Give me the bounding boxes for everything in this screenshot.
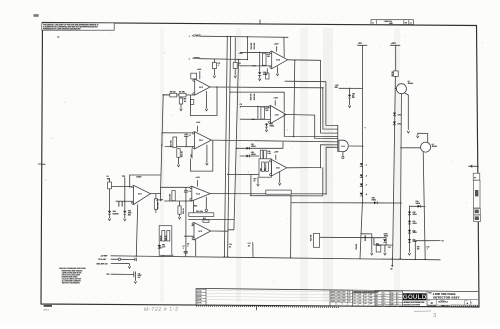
svg-text:.005: .005 bbox=[370, 294, 373, 296]
svg-text:R23: R23 bbox=[376, 244, 379, 246]
svg-text:TP9: TP9 bbox=[159, 247, 162, 249]
svg-text:TP8: TP8 bbox=[106, 274, 109, 276]
svg-text:SHEET 1 OF 1: SHEET 1 OF 1 bbox=[441, 306, 450, 308]
svg-text:P1: P1 bbox=[474, 177, 476, 179]
svg-text:R27: R27 bbox=[417, 247, 420, 249]
svg-text:QTY PL: QTY PL bbox=[197, 299, 202, 301]
svg-text:.015: .015 bbox=[364, 294, 367, 296]
svg-text:3: 3 bbox=[189, 36, 190, 38]
svg-text:TP10, REF: TP10, REF bbox=[98, 259, 107, 261]
svg-text:.005: .005 bbox=[370, 297, 373, 299]
svg-text:+5VDC: +5VDC bbox=[192, 57, 200, 60]
svg-text:2: 2 bbox=[189, 59, 190, 61]
svg-text:1N914: 1N914 bbox=[372, 199, 377, 202]
svg-text:.01: .01 bbox=[229, 246, 231, 248]
svg-text:1/4 W 5% TOLERANCE: 1/4 W 5% TOLERANCE bbox=[62, 282, 81, 285]
svg-text:.1: .1 bbox=[240, 106, 241, 108]
svg-text:P2: P2 bbox=[442, 241, 444, 243]
svg-text:DR: DR bbox=[376, 303, 378, 305]
svg-text:.015: .015 bbox=[364, 300, 367, 302]
svg-text:R14: R14 bbox=[253, 64, 256, 67]
svg-text:R22 300: R22 300 bbox=[310, 235, 312, 241]
svg-text:CR6: CR6 bbox=[413, 230, 416, 232]
svg-text:CR9: CR9 bbox=[416, 201, 419, 203]
svg-text:R19 1K: R19 1K bbox=[165, 235, 167, 241]
svg-text:CR12: CR12 bbox=[398, 124, 402, 126]
svg-text:REV A: REV A bbox=[43, 308, 49, 311]
svg-text:+12V: +12V bbox=[197, 69, 202, 71]
svg-text:DR: DR bbox=[376, 298, 378, 300]
svg-text:R2 2K: R2 2K bbox=[119, 201, 121, 206]
svg-text:DR: DR bbox=[376, 301, 378, 303]
svg-text:.030: .030 bbox=[359, 294, 362, 296]
svg-text:M-722 # 1-2: M-722 # 1-2 bbox=[144, 306, 179, 313]
svg-text:.015: .015 bbox=[364, 303, 367, 305]
svg-text:R26 1K: R26 1K bbox=[392, 70, 394, 76]
svg-text:C11: C11 bbox=[138, 273, 141, 275]
svg-text:J.Wms: J.Wms bbox=[381, 298, 386, 300]
svg-text:R6 10K: R6 10K bbox=[170, 92, 176, 94]
svg-text:R15 10K: R15 10K bbox=[254, 42, 256, 49]
svg-text:.030: .030 bbox=[359, 300, 362, 302]
svg-text:.01: .01 bbox=[248, 245, 250, 247]
svg-text:XX.X: XX.X bbox=[353, 297, 356, 299]
svg-text:.1: .1 bbox=[187, 246, 188, 248]
svg-text:CR7: CR7 bbox=[413, 239, 416, 241]
svg-text:R21: R21 bbox=[203, 218, 206, 220]
svg-text:.1: .1 bbox=[183, 248, 184, 250]
svg-text:TITLE: TITLE bbox=[428, 293, 431, 295]
svg-text:+5V REF: +5V REF bbox=[100, 256, 108, 258]
svg-text:C12: C12 bbox=[388, 247, 391, 249]
svg-text:R25 240: R25 240 bbox=[364, 235, 367, 241]
svg-text:R7 10K: R7 10K bbox=[179, 92, 185, 94]
svg-text:R18 10K: R18 10K bbox=[254, 93, 256, 100]
svg-text:J.Wms: J.Wms bbox=[381, 301, 386, 303]
svg-text:R14: R14 bbox=[194, 205, 197, 208]
svg-text:GOULD: GOULD bbox=[403, 294, 427, 301]
svg-text:R18 10K: R18 10K bbox=[251, 93, 253, 100]
svg-text:+12V: +12V bbox=[195, 177, 200, 179]
svg-text:CHK: CHK bbox=[391, 306, 394, 308]
svg-text:TP5: TP5 bbox=[122, 176, 125, 178]
svg-text:1N4742: 1N4742 bbox=[113, 212, 119, 215]
svg-text:XX.X: XX.X bbox=[353, 300, 356, 302]
svg-text:80-00723-1: 80-00723-1 bbox=[439, 302, 449, 304]
svg-text:DWG NO: DWG NO bbox=[440, 300, 445, 302]
svg-text:-4: -4 bbox=[365, 193, 367, 196]
svg-text:D: D bbox=[431, 301, 433, 305]
svg-text:4881: 4881 bbox=[389, 22, 393, 25]
svg-text:+12V: +12V bbox=[274, 151, 279, 153]
svg-text:1: 1 bbox=[471, 302, 472, 304]
svg-text:R10 2K: R10 2K bbox=[183, 207, 185, 213]
svg-text:DR: DR bbox=[376, 295, 378, 297]
svg-text:+5V: +5V bbox=[358, 43, 362, 45]
svg-text:.030: .030 bbox=[359, 297, 362, 299]
svg-text:CHK: CHK bbox=[391, 293, 394, 295]
svg-text:R13 10K: R13 10K bbox=[170, 193, 172, 201]
svg-text:+12V: +12V bbox=[391, 43, 397, 45]
svg-text:QTY PL: QTY PL bbox=[197, 297, 202, 299]
svg-text:QTY PL: QTY PL bbox=[197, 291, 202, 293]
svg-text:CR10: CR10 bbox=[384, 234, 388, 236]
svg-text:10: 10 bbox=[254, 180, 256, 182]
svg-text:QTY PL: QTY PL bbox=[197, 302, 202, 304]
svg-text:R20 10K: R20 10K bbox=[196, 211, 204, 213]
svg-text:REF: REF bbox=[335, 87, 338, 89]
svg-text:XX.X: XX.X bbox=[353, 303, 356, 305]
svg-text:QTY PL: QTY PL bbox=[197, 294, 202, 296]
svg-text:+12V: +12V bbox=[196, 122, 201, 124]
svg-text:R21: R21 bbox=[264, 168, 266, 171]
svg-text:R12 1K: R12 1K bbox=[182, 150, 184, 157]
svg-text:2N2222: 2N2222 bbox=[408, 83, 414, 85]
svg-text:R24 1K: R24 1K bbox=[355, 243, 358, 249]
svg-text:J.Wms: J.Wms bbox=[381, 293, 386, 295]
svg-text:R9 2.49K: R9 2.49K bbox=[157, 201, 160, 209]
svg-text:GND, REF, GD: GND, REF, GD bbox=[96, 263, 108, 265]
svg-text:+12VDC: +12VDC bbox=[192, 34, 201, 37]
svg-text:REV: REV bbox=[466, 300, 468, 302]
svg-text:1N914: 1N914 bbox=[263, 73, 268, 76]
svg-text:+12V: +12V bbox=[273, 97, 278, 99]
svg-text:DR: DR bbox=[376, 293, 378, 295]
svg-text:6.8UF: 6.8UF bbox=[138, 275, 142, 277]
svg-text:J.Wms: J.Wms bbox=[381, 295, 386, 297]
svg-text:CHK: CHK bbox=[391, 296, 394, 298]
svg-text:1N914: 1N914 bbox=[270, 124, 275, 127]
svg-text:.1: .1 bbox=[427, 249, 428, 251]
svg-text:C13: C13 bbox=[427, 247, 430, 249]
svg-text:+12V: +12V bbox=[274, 43, 279, 45]
svg-text:.015: .015 bbox=[364, 297, 367, 299]
svg-text:R19: R19 bbox=[252, 119, 255, 121]
svg-text:.030: .030 bbox=[359, 303, 362, 305]
svg-text:PERMISSION OF CORP. DEVICES LA: PERMISSION OF CORP. DEVICES LABORATORY bbox=[43, 27, 81, 30]
svg-text:CHK: CHK bbox=[391, 298, 394, 300]
svg-text:+IN. REF: +IN. REF bbox=[156, 199, 164, 201]
svg-text:J.Wms: J.Wms bbox=[381, 303, 386, 305]
svg-text:J.Wms: J.Wms bbox=[381, 306, 386, 308]
svg-text:-2: -2 bbox=[365, 176, 367, 178]
svg-text:CHK: CHK bbox=[391, 301, 394, 303]
svg-text:.005: .005 bbox=[370, 303, 373, 305]
svg-text:1N914: 1N914 bbox=[251, 153, 256, 156]
svg-text:XX.X: XX.X bbox=[353, 294, 356, 296]
svg-text:2N2907: 2N2907 bbox=[432, 146, 438, 148]
svg-text:.005: .005 bbox=[370, 300, 373, 302]
svg-text:R18 1K: R18 1K bbox=[160, 235, 162, 241]
svg-text:DETECTOR ASSY: DETECTOR ASSY bbox=[433, 296, 459, 300]
svg-text:R15 10K: R15 10K bbox=[251, 42, 253, 49]
svg-text:R11 10K: R11 10K bbox=[171, 140, 173, 148]
svg-text:1N914: 1N914 bbox=[251, 145, 256, 148]
svg-text:C7: C7 bbox=[189, 135, 191, 137]
svg-text:-1: -1 bbox=[365, 164, 367, 166]
svg-text:-3: -3 bbox=[365, 185, 367, 187]
svg-text:CR3: CR3 bbox=[352, 94, 355, 96]
svg-text:LM307: LM307 bbox=[136, 177, 141, 179]
svg-text:C9: C9 bbox=[189, 191, 191, 193]
svg-text:CHK: CHK bbox=[391, 303, 394, 305]
svg-text:CR11: CR11 bbox=[398, 115, 402, 117]
svg-text:R3 2K: R3 2K bbox=[122, 201, 124, 206]
svg-text:DR: DR bbox=[376, 306, 378, 308]
svg-text:CR5: CR5 bbox=[413, 221, 416, 223]
svg-text:4: 4 bbox=[161, 144, 162, 147]
svg-text:R20: R20 bbox=[260, 168, 262, 171]
